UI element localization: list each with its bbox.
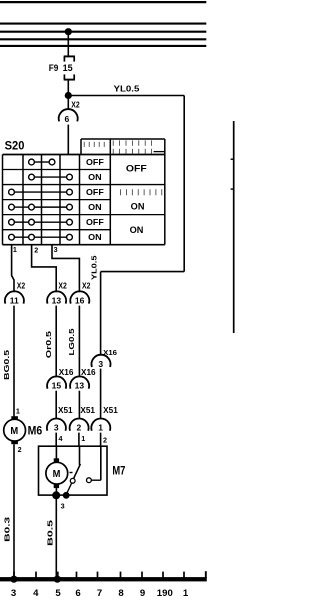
svg-text:1: 1 (183, 588, 189, 599)
svg-text:ON: ON (88, 173, 102, 182)
svg-text:OFF: OFF (86, 218, 104, 227)
svg-text:5: 5 (55, 588, 61, 599)
svg-text:ON: ON (131, 201, 145, 211)
svg-text:2: 2 (77, 422, 82, 432)
svg-text:9: 9 (140, 588, 145, 599)
svg-text:X51: X51 (58, 406, 73, 415)
svg-text:7: 7 (97, 588, 102, 599)
svg-text:2: 2 (103, 435, 107, 444)
svg-text:2: 2 (18, 445, 22, 454)
svg-text:3: 3 (54, 245, 58, 254)
svg-text:X51: X51 (80, 406, 95, 415)
svg-text:1: 1 (16, 407, 20, 416)
svg-text:OFF: OFF (86, 158, 104, 167)
svg-text:190: 190 (157, 588, 173, 599)
svg-text:YL0.5: YL0.5 (114, 84, 141, 93)
svg-text:M: M (53, 469, 61, 480)
svg-text:4: 4 (59, 434, 63, 443)
svg-text:6: 6 (75, 588, 80, 599)
svg-text:B0.3: B0.3 (3, 517, 12, 542)
svg-text:Or0.5: Or0.5 (44, 331, 53, 358)
svg-text:4: 4 (33, 588, 39, 599)
svg-text:3: 3 (98, 359, 103, 369)
svg-text:1: 1 (98, 422, 103, 432)
svg-text:M7: M7 (112, 464, 125, 478)
svg-text:15: 15 (63, 63, 73, 73)
svg-text:YL0.5: YL0.5 (90, 256, 99, 281)
svg-text:6: 6 (65, 114, 70, 124)
svg-text:ON: ON (88, 203, 102, 212)
svg-text:X16: X16 (59, 368, 74, 377)
svg-text:X2: X2 (82, 282, 91, 291)
svg-text:1: 1 (13, 245, 17, 254)
svg-text:X2: X2 (71, 101, 80, 110)
svg-text:16: 16 (75, 295, 85, 305)
svg-text:S20: S20 (5, 141, 25, 153)
svg-text:15: 15 (52, 381, 62, 391)
svg-text:1: 1 (81, 434, 85, 443)
svg-text:11: 11 (10, 295, 19, 305)
svg-text:2: 2 (34, 245, 38, 254)
svg-text:B0.5: B0.5 (45, 520, 54, 546)
svg-text:8: 8 (118, 588, 124, 599)
svg-text:X51: X51 (103, 406, 118, 415)
svg-text:13: 13 (75, 381, 85, 391)
svg-text:X2: X2 (58, 282, 67, 291)
svg-text:F9: F9 (49, 63, 59, 73)
svg-text:OFF: OFF (86, 188, 104, 197)
svg-text:X16: X16 (81, 368, 96, 377)
svg-text:ON: ON (130, 225, 144, 235)
svg-text:LG0.5: LG0.5 (67, 329, 76, 356)
svg-text:BG0.5: BG0.5 (2, 350, 11, 380)
svg-text:3: 3 (11, 588, 16, 599)
svg-text:M6: M6 (28, 424, 43, 438)
svg-text:3: 3 (61, 501, 65, 510)
svg-text:13: 13 (52, 295, 62, 305)
svg-text:X2: X2 (17, 282, 26, 291)
svg-text:M: M (10, 426, 18, 437)
svg-text:3: 3 (54, 422, 59, 432)
svg-text:OFF: OFF (126, 163, 147, 174)
svg-text:ON: ON (88, 233, 102, 242)
